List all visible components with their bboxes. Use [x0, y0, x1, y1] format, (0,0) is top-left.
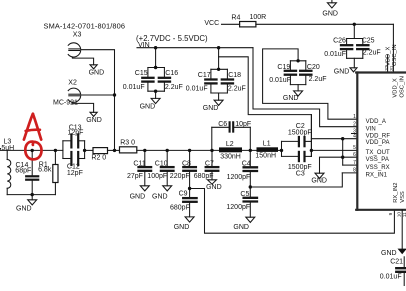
- svg-text:C11: C11: [133, 161, 145, 168]
- svg-text:GND: GND: [16, 206, 32, 213]
- svg-text:GND: GND: [203, 105, 219, 112]
- svg-text:0.01uF: 0.01uF: [324, 51, 346, 58]
- svg-text:1: 1: [353, 114, 356, 120]
- svg-text:C4: C4: [242, 160, 251, 167]
- svg-text:11: 11: [402, 212, 406, 217]
- svg-text:C10: C10: [155, 161, 168, 168]
- svg-text:VSS_RX: VSS_RX: [366, 165, 390, 171]
- svg-text:R4: R4: [231, 15, 240, 22]
- svg-text:680pF: 680pF: [170, 204, 190, 211]
- svg-text:C9: C9: [179, 191, 188, 198]
- svg-text:C16: C16: [165, 70, 178, 77]
- svg-text:GND: GND: [130, 193, 146, 200]
- svg-text:VDD_A: VDD_A: [366, 119, 386, 125]
- svg-text:R2 0: R2 0: [91, 155, 106, 162]
- svg-text:1200pF: 1200pF: [226, 204, 250, 211]
- svg-text:8: 8: [353, 168, 356, 174]
- svg-text:X3: X3: [73, 31, 82, 38]
- svg-text:5uH: 5uH: [1, 145, 14, 152]
- svg-text:1500pF: 1500pF: [288, 130, 312, 137]
- svg-text:C5: C5: [240, 191, 249, 198]
- svg-text:C17: C17: [198, 72, 211, 79]
- svg-text:68pF: 68pF: [15, 167, 31, 174]
- svg-text:0.01uF: 0.01uF: [123, 84, 145, 91]
- svg-text:12pF: 12pF: [68, 130, 84, 137]
- svg-text:100R: 100R: [250, 14, 267, 21]
- svg-text:4: 4: [353, 134, 356, 140]
- svg-text:RX_IN1: RX_IN1: [366, 173, 388, 179]
- svg-text:OSC_IN: OSC_IN: [392, 44, 398, 66]
- svg-text:X2: X2: [68, 79, 77, 86]
- svg-text:220pF: 220pF: [170, 173, 190, 180]
- svg-text:OSC_IN: OSC_IN: [399, 76, 405, 98]
- svg-text:10pF: 10pF: [235, 121, 251, 128]
- svg-text:2.2uF: 2.2uF: [363, 50, 381, 57]
- svg-text:GND: GND: [283, 95, 299, 102]
- svg-text:0.01uF: 0.01uF: [186, 86, 208, 93]
- svg-text:C26: C26: [333, 38, 346, 45]
- svg-text:GND: GND: [233, 224, 249, 231]
- svg-text:R3 0: R3 0: [120, 139, 135, 146]
- svg-text:L2: L2: [226, 141, 234, 148]
- svg-text:GND: GND: [140, 103, 156, 110]
- svg-text:VDD_X: VDD_X: [393, 78, 399, 97]
- svg-text:330nH: 330nH: [220, 153, 241, 160]
- svg-text:C25: C25: [362, 37, 375, 44]
- svg-text:2.2uF: 2.2uF: [228, 86, 246, 93]
- svg-text:7: 7: [353, 160, 356, 166]
- svg-text:150nH: 150nH: [255, 153, 276, 160]
- svg-text:1200pF: 1200pF: [227, 174, 251, 181]
- svg-text:VSS_PA: VSS_PA: [366, 157, 389, 163]
- svg-text:680pF: 680pF: [194, 173, 214, 180]
- svg-text:31: 31: [389, 65, 395, 71]
- svg-text:L1: L1: [263, 140, 271, 147]
- svg-text:GND: GND: [152, 193, 168, 200]
- svg-text:GND: GND: [86, 117, 102, 124]
- svg-text:C20: C20: [307, 64, 320, 71]
- svg-text:100pF: 100pF: [147, 173, 167, 180]
- svg-text:GND: GND: [334, 69, 350, 76]
- svg-text:5: 5: [353, 145, 356, 151]
- svg-text:27pF: 27pF: [127, 173, 143, 180]
- svg-text:C19: C19: [277, 64, 290, 71]
- svg-text:VDD_RF: VDD_RF: [366, 133, 391, 139]
- svg-text:10: 10: [397, 212, 403, 218]
- svg-text:12pF: 12pF: [67, 170, 83, 177]
- svg-text:2: 2: [353, 122, 356, 128]
- svg-text:GND: GND: [381, 250, 397, 257]
- svg-text:2.2uF: 2.2uF: [165, 84, 183, 91]
- svg-text:C3: C3: [296, 170, 305, 177]
- svg-text:GND: GND: [322, 10, 338, 17]
- svg-text:C6: C6: [218, 121, 227, 128]
- svg-text:GND: GND: [206, 184, 222, 191]
- svg-text:TX_OUT: TX_OUT: [366, 150, 390, 156]
- svg-text:VIN: VIN: [138, 42, 150, 49]
- svg-text:C7: C7: [205, 161, 214, 168]
- svg-text:9: 9: [388, 212, 394, 215]
- svg-text:VDD_X: VDD_X: [386, 47, 392, 66]
- svg-text:0.01uF: 0.01uF: [269, 77, 291, 84]
- svg-text:VSS: VSS: [400, 191, 406, 203]
- svg-text:RX_IN2: RX_IN2: [393, 182, 399, 202]
- svg-text:C8: C8: [182, 161, 191, 168]
- svg-text:SMA-142-0701-801/806: SMA-142-0701-801/806: [44, 21, 126, 30]
- svg-text:VDD_PA: VDD_PA: [366, 140, 390, 146]
- svg-text:C18: C18: [228, 72, 241, 79]
- svg-text:GND: GND: [311, 177, 327, 184]
- svg-text:VIN: VIN: [366, 126, 376, 132]
- svg-text:2.2uF: 2.2uF: [309, 76, 327, 83]
- svg-text:GND: GND: [89, 69, 105, 76]
- svg-text:MC-921: MC-921: [53, 100, 78, 107]
- svg-text:6.8k: 6.8k: [38, 167, 52, 174]
- svg-text:VCC: VCC: [204, 20, 219, 27]
- svg-text:C15: C15: [135, 70, 148, 77]
- svg-text:6: 6: [353, 152, 356, 158]
- svg-text:C21: C21: [390, 259, 403, 266]
- svg-text:GND: GND: [174, 224, 190, 231]
- svg-text:0.01uF: 0.01uF: [380, 274, 402, 281]
